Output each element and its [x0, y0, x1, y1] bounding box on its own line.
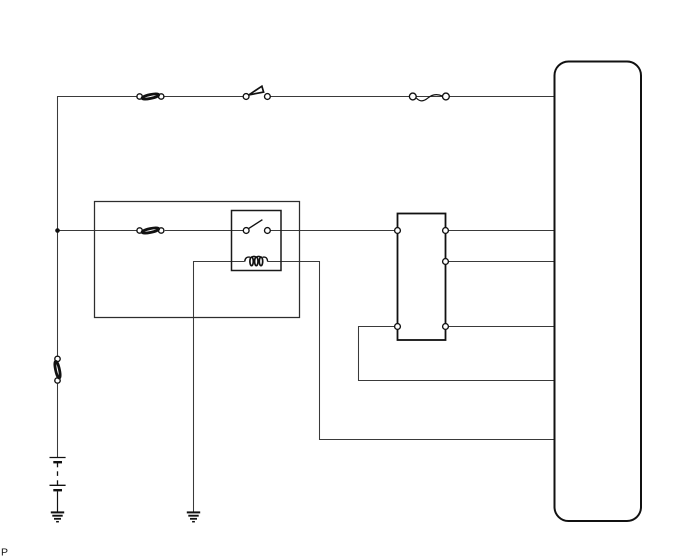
ECU box [555, 62, 642, 522]
wire left vertical upper [57, 96, 59, 356]
relay coil [245, 256, 268, 265]
wire connector bottom left loop [359, 327, 556, 381]
wire main horizontal segment C [270, 230, 395, 232]
switch SW1 top [243, 86, 270, 99]
wire connector bottom right [448, 326, 555, 328]
pin top right [443, 228, 449, 234]
fuse F2 top thin [409, 93, 449, 101]
pin bottom right [443, 324, 449, 330]
node junction dot [55, 228, 60, 233]
pin top left [395, 228, 401, 234]
ground battery [51, 512, 64, 521]
junction block box [95, 202, 300, 318]
wire top horizontal middle segment [165, 96, 244, 98]
connector block box [398, 214, 446, 341]
wire top horizontal right segment [270, 96, 555, 98]
pin mid right [443, 259, 449, 265]
fusible link FL vertical [54, 356, 61, 383]
ground relay coil [187, 512, 200, 521]
relay box [232, 211, 282, 271]
wire connector mid right [448, 261, 555, 263]
pin bottom left [395, 324, 401, 330]
wire main horizontal segment D [448, 230, 555, 232]
wire main horizontal segment A [58, 230, 138, 232]
wire top horizontal left segment [58, 96, 138, 98]
wire coil right run [268, 262, 556, 440]
battery [50, 458, 66, 491]
svg-text:P: P [1, 547, 8, 559]
fuse F1 top [137, 93, 164, 100]
wire main horizontal segment B [165, 230, 244, 232]
wire coil left run [194, 262, 245, 512]
wire left vertical lower [57, 384, 59, 458]
fuse F3 main [137, 227, 164, 234]
wire battery to ground [57, 491, 59, 512]
relay contact [243, 220, 270, 234]
